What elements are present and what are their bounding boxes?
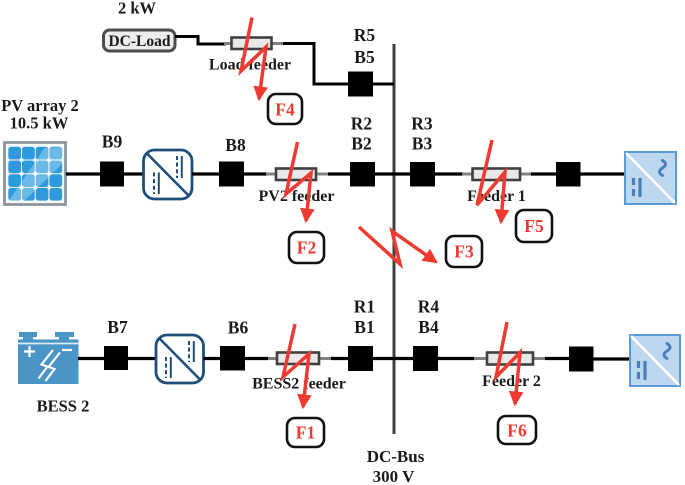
svg-text:F1: F1 <box>296 423 315 443</box>
feeder resistor BESS2 feeder <box>252 353 346 393</box>
label PV array 2 / 10.5 kW <box>1 96 79 133</box>
wire breaker to inverter U1 <box>580 172 626 175</box>
svg-text:PV array 2: PV array 2 <box>1 96 79 115</box>
wire R2 across bus to R3 <box>375 172 410 175</box>
inverter U1 (DC/AC top) <box>625 152 676 204</box>
wire B9 to converter <box>124 172 143 175</box>
svg-text:B3: B3 <box>412 134 433 154</box>
svg-text:F6: F6 <box>507 421 527 441</box>
wire BESS to B7 <box>78 357 104 360</box>
inverter U2 (DC/AC bottom) <box>630 335 680 386</box>
svg-text:R5: R5 <box>354 25 376 45</box>
PV array PV2 <box>5 143 66 205</box>
svg-text:B4: B4 <box>418 317 439 337</box>
breaker (feeder 2, unlabeled) <box>569 347 594 372</box>
wire BESS2 feeder to R1 <box>331 357 348 360</box>
breaker B9 <box>100 162 124 187</box>
svg-text:F2: F2 <box>297 238 316 258</box>
svg-text:BESS 2: BESS 2 <box>37 397 90 416</box>
label R4 B4 <box>418 297 440 338</box>
feeder resistor Load feeder <box>209 38 291 74</box>
svg-text:R1: R1 <box>354 297 375 317</box>
fault label F3 <box>446 236 482 267</box>
wire converter to B6 <box>204 357 221 360</box>
DC load U-LOAD <box>104 30 176 51</box>
wire PV2 feeder to R2 <box>328 172 350 175</box>
svg-text:B9: B9 <box>102 132 123 152</box>
breaker R4/B4 <box>413 346 438 371</box>
fault F5 arrow <box>477 140 505 222</box>
wire B7 to converter <box>128 357 156 360</box>
svg-text:B1: B1 <box>354 317 374 337</box>
svg-text:10.5 kW: 10.5 kW <box>10 114 69 133</box>
svg-text:B7: B7 <box>107 317 128 337</box>
label DC-Bus 300 V <box>367 447 425 485</box>
fault F1 arrow <box>283 324 309 407</box>
fault F3 arrow <box>359 227 436 264</box>
wire R3 to Feeder 1 <box>435 172 463 175</box>
svg-text:PV2 feeder: PV2 feeder <box>259 188 335 205</box>
svg-text:300 V: 300 V <box>373 467 415 485</box>
breaker (feeder 1, unlabeled) <box>556 162 581 187</box>
label R1 B1 <box>354 297 375 338</box>
feeder resistor PV2 feeder <box>259 169 335 206</box>
wire converter to B8 <box>192 172 219 175</box>
wire Load feeder to breaker B5 <box>283 44 348 85</box>
svg-text:R2: R2 <box>351 114 372 134</box>
label R2 B2 <box>351 114 372 154</box>
wire R4 to Feeder 2 <box>438 357 475 360</box>
fault label F6 <box>498 416 536 444</box>
fault F6 arrow <box>496 322 520 404</box>
fault label F1 <box>287 418 324 447</box>
label R3 B3 <box>411 114 433 154</box>
converter U-DC/DC-1 (PV) <box>144 150 193 199</box>
wire B5 to DC bus <box>373 83 394 86</box>
svg-text:B5: B5 <box>354 47 375 67</box>
label R5 B5 <box>354 25 376 67</box>
svg-text:F4: F4 <box>275 100 295 120</box>
wire B6 to BESS2 feeder <box>245 357 269 360</box>
svg-text:B8: B8 <box>225 135 246 155</box>
wire Feeder 2 to breaker <box>545 357 569 360</box>
breaker R1/B1 <box>348 346 373 371</box>
svg-text:R4: R4 <box>418 297 440 317</box>
breaker B8 <box>219 162 244 187</box>
svg-text:B6: B6 <box>228 318 249 338</box>
breaker B7 <box>104 346 128 370</box>
feeder resistor Feeder 1 <box>462 169 531 206</box>
breaker B6 <box>220 346 245 371</box>
breaker R2/B2 <box>350 162 375 187</box>
fault label F2 <box>289 232 324 263</box>
svg-text:B2: B2 <box>351 134 371 154</box>
DC bus (vertical) <box>393 44 396 434</box>
fault label F5 <box>516 210 552 242</box>
svg-text:BESS2 feeder: BESS2 feeder <box>252 376 346 393</box>
breaker R3/B3 <box>410 162 435 187</box>
svg-text:2 kW: 2 kW <box>118 0 157 18</box>
svg-text:F5: F5 <box>524 216 544 236</box>
fault F2 arrow <box>286 142 311 221</box>
wire DC-Load to Load feeder <box>175 37 226 45</box>
fault F4 arrow <box>241 18 266 100</box>
svg-text:DC-Bus: DC-Bus <box>367 447 425 466</box>
fault label F4 <box>268 94 302 124</box>
wire B8 to PV2 feeder <box>244 172 267 175</box>
wire PV2 to B9 <box>66 172 100 175</box>
svg-text:F3: F3 <box>454 242 474 262</box>
wire R1 across bus to R4 <box>373 357 413 360</box>
svg-text:R3: R3 <box>411 114 433 134</box>
wire Feeder 1 to breaker <box>531 172 556 175</box>
converter U-DC/DC-2 (BESS) <box>156 335 204 383</box>
breaker B5 <box>348 72 373 97</box>
svg-text:Load feeder: Load feeder <box>209 57 291 74</box>
feeder resistor Feeder 2 <box>474 353 545 391</box>
wire breaker to inverter U2 <box>593 357 631 360</box>
svg-text:DC-Load: DC-Load <box>108 33 170 50</box>
battery BESS 2 <box>18 332 79 384</box>
svg-text:Feeder 2: Feeder 2 <box>482 373 541 390</box>
